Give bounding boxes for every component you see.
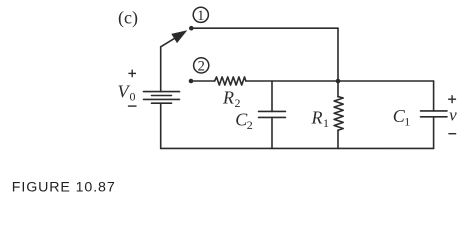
svg-text:1: 1 (404, 115, 410, 129)
svg-text:R: R (222, 88, 234, 108)
svg-text:2: 2 (235, 96, 241, 110)
svg-text:1: 1 (323, 116, 329, 130)
svg-text:R: R (311, 108, 323, 128)
svg-text:2: 2 (198, 58, 205, 74)
svg-text:1: 1 (197, 8, 204, 24)
svg-text:0: 0 (130, 90, 136, 104)
svg-text:(c): (c) (118, 8, 138, 29)
svg-text:2: 2 (247, 118, 253, 132)
svg-text:v: v (449, 105, 457, 124)
svg-text:FIGURE 10.87: FIGURE 10.87 (12, 180, 116, 196)
